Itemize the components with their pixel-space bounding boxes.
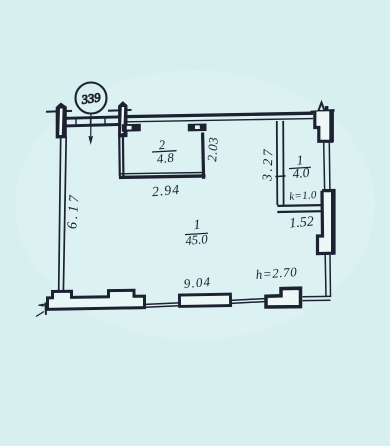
top-right column break peak <box>318 103 324 111</box>
svg-text:4.0: 4.0 <box>292 165 310 181</box>
svg-text:1.52: 1.52 <box>289 214 315 231</box>
lighter scanned-paper centre <box>15 70 375 340</box>
room 2 left wall (double line) <box>119 133 123 176</box>
top wall inner line <box>127 119 314 122</box>
room 2 bottom wall <box>119 173 205 174</box>
svg-text:45.0: 45.0 <box>185 232 209 248</box>
svg-text:3.27: 3.27 <box>259 147 275 183</box>
window pier block mid <box>179 294 230 306</box>
top-right column cap line <box>311 110 335 112</box>
svg-text:k=1.0: k=1.0 <box>289 189 318 203</box>
bottom-left thick wall with pilasters <box>48 290 145 309</box>
svg-text:2.94: 2.94 <box>151 182 180 199</box>
svg-text:4.8: 4.8 <box>156 150 175 167</box>
right column mid body <box>318 191 334 254</box>
balcony pier block (L-shape) <box>266 288 301 307</box>
svg-text:1: 1 <box>193 218 201 234</box>
room 2 top-right wall stub <box>188 124 207 132</box>
column left (hatched post) <box>56 103 66 138</box>
top-right column body <box>315 111 332 141</box>
entry wall with threshold ticks <box>66 117 119 118</box>
top wall thick line <box>127 113 314 116</box>
room 2 right wall <box>203 133 204 179</box>
partition wall vertical (double line) <box>277 121 284 205</box>
svg-text:339: 339 <box>80 90 102 107</box>
room 2 top-left wall stub <box>122 124 141 132</box>
left wall (double line) <box>59 137 66 291</box>
window double line mid-right <box>231 299 265 304</box>
dimension tick on partition <box>275 175 285 178</box>
svg-text:2.03: 2.03 <box>204 136 221 162</box>
column cap line right <box>108 109 132 112</box>
window sill line to balcony block <box>303 296 331 300</box>
column second (hatched post) <box>119 102 127 137</box>
right wall upper (double line) <box>323 143 326 190</box>
svg-text:h=2.70: h=2.70 <box>255 264 298 282</box>
apartment number circle 339 <box>76 83 107 114</box>
leader line from circle <box>89 114 92 143</box>
column cap line left <box>46 110 72 113</box>
room 2 label fraction <box>152 137 177 167</box>
room 1 small label fraction 4.0 <box>289 152 311 181</box>
svg-text:6.17: 6.17 <box>65 192 83 229</box>
window double line mid-left <box>146 303 179 307</box>
partition wall horizontal (double line) <box>277 205 322 212</box>
svg-text:9.04: 9.04 <box>183 274 212 291</box>
room 1 main label fraction 45.0 <box>185 218 209 248</box>
right wall lower (double line) <box>325 255 330 297</box>
wall break arrows <box>39 304 49 307</box>
